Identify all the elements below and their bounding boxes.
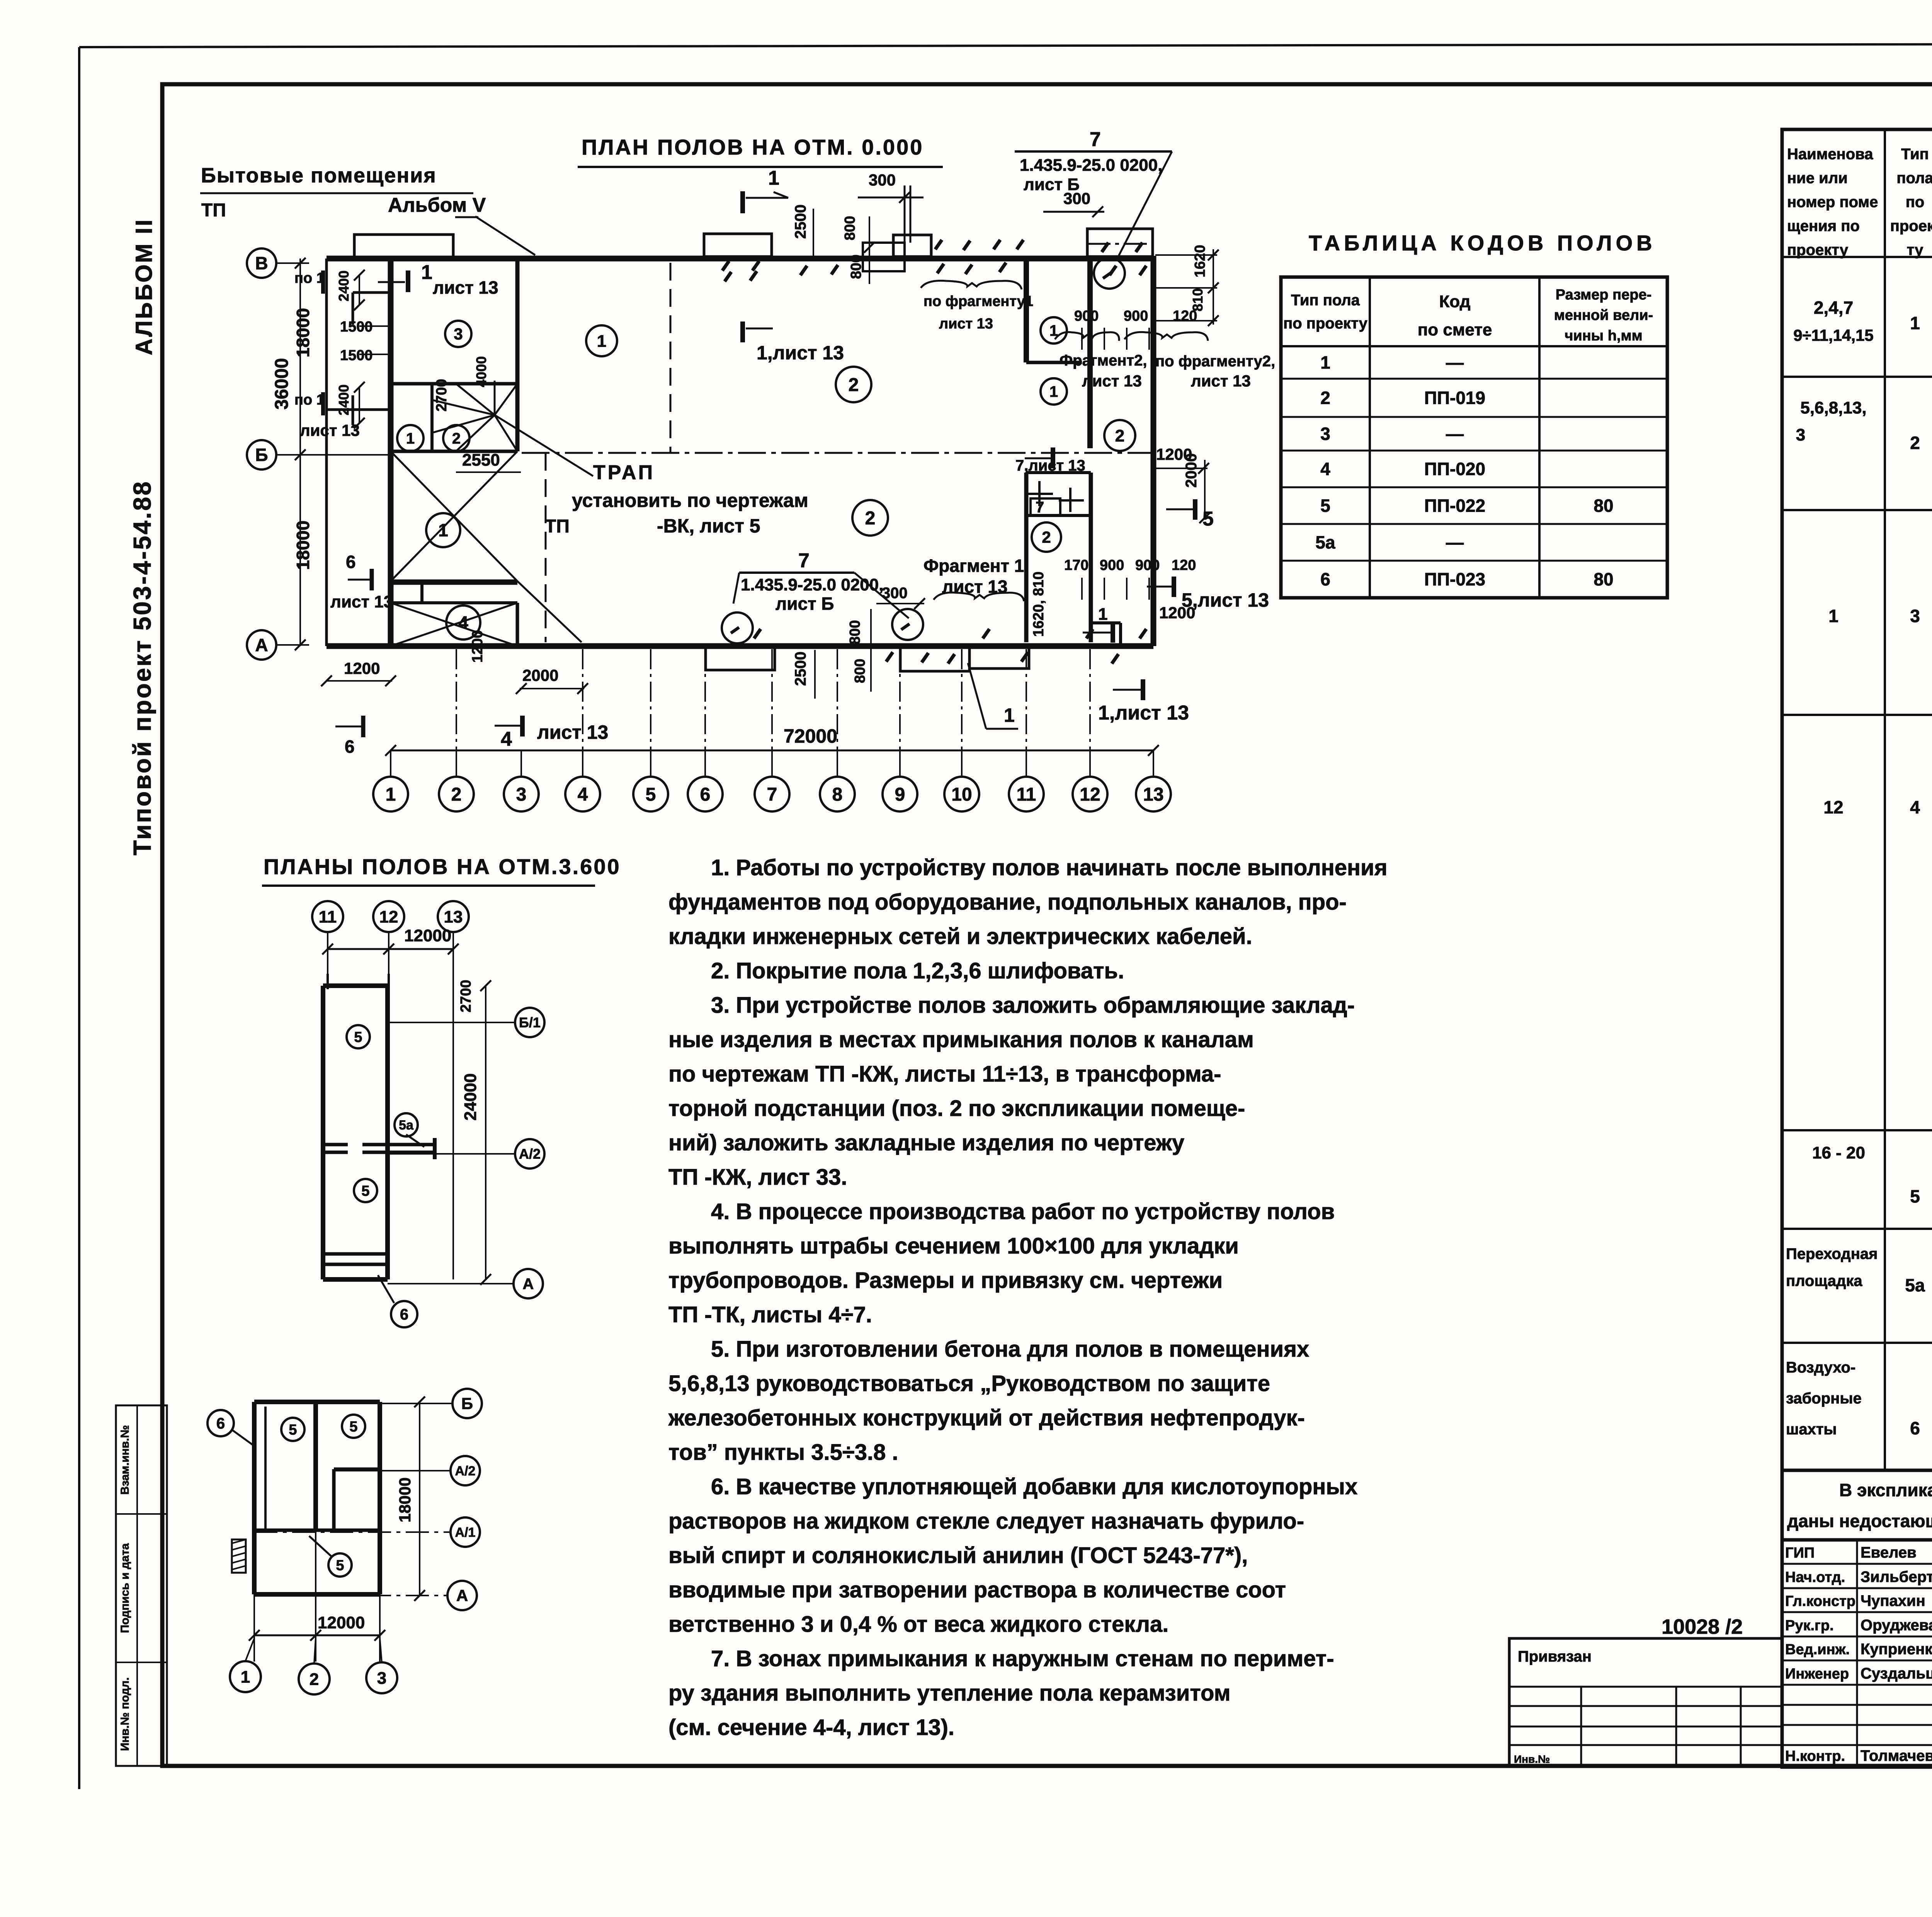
svg-text:2: 2 <box>452 430 461 447</box>
svg-text:Н.контр.: Н.контр. <box>1785 1748 1845 1764</box>
svg-text:800: 800 <box>852 659 868 683</box>
svg-text:Код: Код <box>1439 292 1470 311</box>
svg-text:Б: Б <box>255 445 268 465</box>
svg-text:Наименова: Наименова <box>1787 146 1873 163</box>
svg-text:6: 6 <box>345 737 355 757</box>
svg-text:ПЛАН ПОЛОВ НА ОТМ. 0.000: ПЛАН ПОЛОВ НА ОТМ. 0.000 <box>582 135 923 159</box>
svg-text:6: 6 <box>1320 569 1330 589</box>
svg-text:1: 1 <box>1098 605 1107 624</box>
svg-text:проекту: проекту <box>1787 242 1849 259</box>
svg-text:1200: 1200 <box>469 630 486 663</box>
svg-text:7: 7 <box>1090 128 1101 151</box>
svg-text:1: 1 <box>406 430 415 447</box>
svg-text:2700: 2700 <box>434 379 450 412</box>
svg-text:12000: 12000 <box>404 926 451 945</box>
svg-text:1200: 1200 <box>344 659 380 677</box>
svg-text:6: 6 <box>400 1306 408 1323</box>
svg-text:5: 5 <box>354 1029 362 1045</box>
svg-text:тов” пункты 3.5÷3.8 .: тов” пункты 3.5÷3.8 . <box>668 1440 898 1465</box>
svg-text:по смете: по смете <box>1418 320 1492 339</box>
svg-text:Фрагмент2,: Фрагмент2, <box>1060 352 1147 369</box>
svg-text:170: 170 <box>1064 557 1088 573</box>
svg-text:В экспликации полов в гра: В экспликации полов в графе „ Элементы п… <box>1839 1480 1932 1500</box>
svg-text:1,лист 13: 1,лист 13 <box>757 342 844 364</box>
svg-text:Подпись и дата: Подпись и дата <box>119 1543 131 1633</box>
svg-text:5: 5 <box>289 1422 297 1438</box>
svg-text:72000: 72000 <box>784 725 837 747</box>
svg-text:1620, 810: 1620, 810 <box>1031 572 1047 637</box>
svg-text:(см. сечение 4-4, лист 13).: (см. сечение 4-4, лист 13). <box>668 1715 954 1740</box>
svg-text:3: 3 <box>516 784 527 805</box>
svg-text:ТП: ТП <box>201 200 226 221</box>
svg-text:1: 1 <box>1049 383 1058 400</box>
svg-text:5: 5 <box>336 1557 344 1573</box>
svg-text:3: 3 <box>1320 424 1330 444</box>
svg-text:трубопроводов. Размеры и пр: трубопроводов. Размеры и привязку см. че… <box>668 1268 1223 1293</box>
svg-text:2: 2 <box>865 508 876 529</box>
svg-text:Воздухо-: Воздухо- <box>1786 1359 1855 1376</box>
svg-text:1.435.9-25.0 0200,: 1.435.9-25.0 0200, <box>1020 156 1162 175</box>
svg-text:Размер пере-: Размер пере- <box>1556 287 1651 303</box>
svg-text:Тип пола: Тип пола <box>1291 292 1360 309</box>
svg-text:менной вели-: менной вели- <box>1554 307 1653 323</box>
svg-text:12: 12 <box>1080 784 1100 805</box>
svg-text:торной подстанции (поз. 2 по: торной подстанции (поз. 2 по экспликации… <box>668 1096 1245 1121</box>
svg-text:4: 4 <box>578 784 588 805</box>
svg-text:1620: 1620 <box>1192 245 1208 277</box>
svg-text:А/2: А/2 <box>455 1464 476 1478</box>
svg-text:6: 6 <box>700 784 711 805</box>
svg-text:11: 11 <box>319 907 337 926</box>
svg-text:1: 1 <box>421 261 432 284</box>
svg-text:120: 120 <box>1173 308 1197 324</box>
svg-text:по 1: по 1 <box>294 270 325 286</box>
svg-text:1: 1 <box>386 784 396 805</box>
svg-text:80: 80 <box>1594 569 1613 589</box>
svg-text:9÷11,14,15: 9÷11,14,15 <box>1793 326 1874 344</box>
svg-text:2: 2 <box>1115 426 1124 445</box>
svg-text:Взам.инв.№: Взам.инв.№ <box>119 1425 131 1495</box>
svg-text:Инженер: Инженер <box>1785 1666 1849 1682</box>
svg-text:ПП-019: ПП-019 <box>1424 388 1485 408</box>
svg-text:Толмачева: Толмачева <box>1861 1747 1932 1764</box>
svg-text:фундаментов под оборудование: фундаментов под оборудование, подпольных… <box>668 890 1347 915</box>
svg-text:13: 13 <box>1143 784 1163 805</box>
svg-text:ГИП: ГИП <box>1785 1545 1815 1561</box>
svg-text:800: 800 <box>847 620 863 645</box>
svg-text:ПП-022: ПП-022 <box>1424 496 1485 516</box>
svg-text:1.435.9-25.0 0200,: 1.435.9-25.0 0200, <box>741 575 883 594</box>
svg-text:Инв.№ подл.: Инв.№ подл. <box>119 1677 131 1751</box>
svg-text:5: 5 <box>349 1419 357 1435</box>
svg-text:Тип: Тип <box>1901 146 1929 163</box>
svg-text:4: 4 <box>458 612 468 633</box>
svg-text:Гл.констр: Гл.констр <box>1785 1593 1855 1609</box>
svg-text:2: 2 <box>1320 388 1330 408</box>
svg-text:ТП: ТП <box>545 516 570 537</box>
svg-text:5а: 5а <box>1905 1275 1925 1295</box>
svg-text:12: 12 <box>379 907 398 926</box>
svg-text:лист 13: лист 13 <box>1082 372 1142 390</box>
svg-text:2,4,7: 2,4,7 <box>1814 298 1853 318</box>
svg-text:Б/1: Б/1 <box>519 1015 541 1031</box>
svg-text:по фрагменту1: по фрагменту1 <box>923 293 1033 310</box>
svg-text:—: — <box>1446 424 1464 444</box>
svg-text:А/1: А/1 <box>455 1525 476 1540</box>
svg-text:по 1: по 1 <box>294 392 325 408</box>
svg-text:лист 13: лист 13 <box>330 592 393 611</box>
svg-text:Альбом V: Альбом V <box>388 194 486 216</box>
svg-text:кладки инженерных сетей и эл: кладки инженерных сетей и электрических … <box>668 924 1252 949</box>
svg-text:ТП -ТК, листы 4÷7.: ТП -ТК, листы 4÷7. <box>668 1302 872 1327</box>
svg-text:железобетонных конструкций от: железобетонных конструкций от действия н… <box>668 1405 1305 1431</box>
svg-text:5,6,8,13,: 5,6,8,13, <box>1800 398 1866 417</box>
svg-text:заборные: заборные <box>1786 1390 1862 1407</box>
svg-text:900: 900 <box>1074 308 1099 324</box>
svg-text:7. В зонах примыкания к нару: 7. В зонах примыкания к наружным стенам … <box>711 1646 1334 1671</box>
svg-text:3: 3 <box>454 325 463 343</box>
svg-text:2: 2 <box>1910 433 1920 453</box>
svg-text:1: 1 <box>768 167 779 189</box>
svg-text:лист 13: лист 13 <box>537 721 608 743</box>
svg-text:Б: Б <box>461 1395 473 1413</box>
svg-text:ний) заложить закладные изд: ний) заложить закладные изделия по черте… <box>668 1130 1184 1155</box>
svg-text:5,6,8,13 руководствоваться „: 5,6,8,13 руководствоваться „Руководством… <box>668 1371 1270 1396</box>
svg-text:900: 900 <box>1100 557 1124 573</box>
svg-text:проек-: проек- <box>1890 218 1932 235</box>
svg-text:ветственно 3 и 0,4 % от вес: ветственно 3 и 0,4 % от веса жидкого сте… <box>668 1612 1168 1637</box>
svg-text:ТРАП: ТРАП <box>593 461 655 484</box>
svg-text:А: А <box>456 1587 468 1605</box>
svg-text:120: 120 <box>1172 557 1196 573</box>
svg-text:2: 2 <box>451 784 462 805</box>
svg-text:1: 1 <box>1910 313 1920 333</box>
svg-text:даны недостающие данные, ост: даны недостающие данные, остальное см. в… <box>1787 1511 1932 1531</box>
svg-text:300: 300 <box>869 171 896 189</box>
svg-text:1: 1 <box>438 520 448 540</box>
svg-text:2000: 2000 <box>522 666 558 684</box>
svg-text:Зильбертов: Зильбертов <box>1861 1568 1932 1585</box>
svg-text:2. Покрытие пола 1,2,3,6: 2. Покрытие пола 1,2,3,6 шлифовать. <box>711 958 1124 983</box>
svg-text:ту: ту <box>1907 242 1924 259</box>
svg-text:2550: 2550 <box>462 451 500 469</box>
svg-text:2500: 2500 <box>792 651 809 686</box>
svg-text:Переходная: Переходная <box>1786 1245 1878 1262</box>
svg-text:5: 5 <box>1910 1186 1920 1206</box>
svg-text:Рук.гр.: Рук.гр. <box>1785 1618 1834 1634</box>
svg-text:7: 7 <box>767 784 777 805</box>
svg-text:А/2: А/2 <box>519 1146 541 1162</box>
svg-text:13: 13 <box>444 907 463 926</box>
svg-text:лист 13: лист 13 <box>433 277 498 298</box>
svg-text:4: 4 <box>1910 797 1920 817</box>
svg-text:лист Б: лист Б <box>776 594 834 614</box>
svg-text:Бытовые помещения: Бытовые помещения <box>201 164 437 187</box>
svg-text:3: 3 <box>1796 425 1805 444</box>
svg-text:8: 8 <box>832 784 843 805</box>
svg-text:щения по: щения по <box>1787 218 1860 235</box>
svg-text:24000: 24000 <box>461 1073 480 1121</box>
svg-text:ТАБЛИЦА КОДОВ ПОЛОВ: ТАБЛИЦА КОДОВ ПОЛОВ <box>1309 231 1656 255</box>
svg-text:3. При устройстве полов залож: 3. При устройстве полов заложить обрамля… <box>711 993 1355 1018</box>
svg-text:12: 12 <box>1823 797 1843 817</box>
svg-text:Оруджева: Оруджева <box>1861 1617 1932 1634</box>
svg-text:Суздальцев: Суздальцев <box>1861 1665 1932 1682</box>
svg-text:300: 300 <box>882 585 908 602</box>
svg-text:36000: 36000 <box>272 358 292 410</box>
svg-text:6. В качестве уплотняющей до: 6. В качестве уплотняющей добавки для ки… <box>711 1474 1357 1499</box>
svg-text:10028 /2: 10028 /2 <box>1662 1615 1743 1638</box>
svg-text:800: 800 <box>848 255 864 279</box>
svg-text:1: 1 <box>1320 352 1330 373</box>
svg-text:Куприенко: Куприенко <box>1861 1641 1932 1658</box>
svg-text:1: 1 <box>1004 704 1015 726</box>
svg-text:вводимые при затворении ра: вводимые при затворении раствора в колич… <box>668 1577 1286 1602</box>
svg-text:ние или: ние или <box>1787 170 1848 187</box>
svg-text:6: 6 <box>216 1415 225 1432</box>
svg-text:—: — <box>1446 352 1464 373</box>
svg-text:по: по <box>1906 194 1925 211</box>
svg-text:18000: 18000 <box>396 1477 414 1522</box>
svg-text:1200: 1200 <box>1159 604 1195 622</box>
svg-text:4: 4 <box>501 728 512 750</box>
svg-text:лист 13: лист 13 <box>939 316 993 332</box>
svg-text:18000: 18000 <box>293 308 313 357</box>
svg-text:растворов на жидком стекле: растворов на жидком стекле следует назна… <box>668 1509 1304 1534</box>
svg-text:ПП-023: ПП-023 <box>1424 569 1485 589</box>
svg-text:Инв.№: Инв.№ <box>1514 1753 1550 1765</box>
svg-text:2400: 2400 <box>336 384 352 415</box>
svg-text:3: 3 <box>377 1669 386 1687</box>
svg-text:Типовой проект 503-4-54.88: Типовой проект 503-4-54.88 <box>128 480 156 855</box>
svg-text:10: 10 <box>951 784 972 805</box>
svg-text:ТП -КЖ, лист 33.: ТП -КЖ, лист 33. <box>668 1165 847 1190</box>
svg-text:А: А <box>523 1276 534 1293</box>
svg-text:Чупахин: Чупахин <box>1861 1592 1925 1609</box>
svg-text:номер поме: номер поме <box>1787 194 1878 211</box>
svg-text:по проекту: по проекту <box>1283 315 1368 332</box>
svg-text:Фрагмент 1,: Фрагмент 1, <box>923 556 1029 576</box>
svg-text:1. Работы по устройству полов: 1. Работы по устройству полов начинать п… <box>711 855 1388 880</box>
svg-text:А: А <box>255 635 268 655</box>
svg-text:11: 11 <box>1017 784 1036 805</box>
svg-text:по чертежам ТП -КЖ, лис: по чертежам ТП -КЖ, листы 11÷13, в транс… <box>668 1061 1221 1087</box>
svg-text:пола: пола <box>1896 170 1932 187</box>
svg-text:7,лист 13: 7,лист 13 <box>1015 457 1085 474</box>
svg-text:АЛЬБОМ II: АЛЬБОМ II <box>131 218 157 355</box>
svg-text:Вед.инж.: Вед.инж. <box>1785 1641 1850 1658</box>
svg-text:2: 2 <box>1042 528 1051 546</box>
svg-text:В: В <box>255 253 268 273</box>
svg-text:7: 7 <box>798 549 810 572</box>
svg-text:по фрагменту2,: по фрагменту2, <box>1155 353 1275 370</box>
svg-text:900: 900 <box>1124 308 1148 324</box>
svg-text:лист 13: лист 13 <box>1191 372 1251 390</box>
svg-text:5. При изготовлении бетона: 5. При изготовлении бетона для полов в п… <box>711 1337 1309 1362</box>
svg-text:800: 800 <box>842 216 858 240</box>
svg-text:2: 2 <box>310 1670 319 1689</box>
svg-text:6: 6 <box>1910 1418 1920 1438</box>
svg-text:2500: 2500 <box>792 204 809 239</box>
svg-text:площадка: площадка <box>1786 1272 1862 1289</box>
svg-text:1: 1 <box>597 332 606 350</box>
svg-text:1,лист 13: 1,лист 13 <box>1098 702 1189 724</box>
svg-text:2000: 2000 <box>1183 453 1200 488</box>
svg-text:1: 1 <box>1828 606 1838 626</box>
svg-text:—: — <box>1446 532 1464 553</box>
svg-text:6: 6 <box>346 552 356 572</box>
svg-text:шахты: шахты <box>1786 1421 1837 1438</box>
svg-text:3: 3 <box>1910 606 1920 626</box>
svg-text:5а: 5а <box>1315 532 1335 553</box>
svg-text:ПЛАНЫ ПОЛОВ НА ОТМ.3.600: ПЛАНЫ ПОЛОВ НА ОТМ.3.600 <box>264 854 621 879</box>
svg-text:вый спирт и солянокислый а: вый спирт и солянокислый анилин (ГОСТ 52… <box>668 1543 1248 1568</box>
svg-text:установить по чертежам: установить по чертежам <box>572 490 808 511</box>
svg-text:18000: 18000 <box>293 520 313 570</box>
svg-text:900: 900 <box>1135 557 1160 573</box>
svg-text:300: 300 <box>1063 189 1090 208</box>
svg-text:2700: 2700 <box>458 980 474 1012</box>
svg-text:1500: 1500 <box>340 347 373 364</box>
svg-text:16 - 20: 16 - 20 <box>1812 1143 1865 1162</box>
svg-text:1: 1 <box>241 1667 250 1686</box>
svg-text:ру здания выполнить утепле: ру здания выполнить утепление пола керам… <box>668 1681 1231 1706</box>
svg-text:5: 5 <box>646 784 656 805</box>
svg-text:5а: 5а <box>399 1118 414 1133</box>
svg-text:2400: 2400 <box>336 270 352 301</box>
svg-text:7: 7 <box>1036 499 1044 516</box>
svg-text:чины h,мм: чины h,мм <box>1565 328 1642 344</box>
svg-text:9: 9 <box>895 784 905 805</box>
svg-text:4: 4 <box>1320 459 1330 479</box>
svg-text:2: 2 <box>849 375 859 395</box>
svg-text:Евелев: Евелев <box>1861 1544 1917 1561</box>
svg-text:80: 80 <box>1594 496 1613 516</box>
svg-text:Нач.отд.: Нач.отд. <box>1785 1569 1845 1585</box>
svg-text:5: 5 <box>1320 496 1330 516</box>
svg-text:лист 13: лист 13 <box>300 421 360 439</box>
svg-text:-ВК, лист 5: -ВК, лист 5 <box>657 515 760 537</box>
svg-text:12000: 12000 <box>318 1613 365 1632</box>
svg-text:5: 5 <box>361 1183 369 1199</box>
svg-text:выполнять штрабы сечением: выполнять штрабы сечением 100×100 для ук… <box>668 1233 1239 1259</box>
svg-text:4. В процессе производства р: 4. В процессе производства работ по устр… <box>711 1199 1335 1224</box>
svg-text:4000: 4000 <box>473 356 489 387</box>
svg-text:ные изделия в местах примы: ные изделия в местах примыкания полов к … <box>668 1027 1254 1052</box>
svg-text:ПП-020: ПП-020 <box>1424 459 1485 479</box>
svg-text:Привязан: Привязан <box>1518 1648 1592 1665</box>
